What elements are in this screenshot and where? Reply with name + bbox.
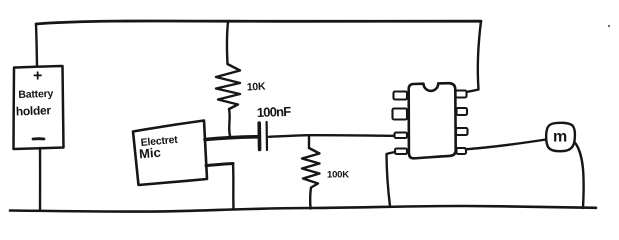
svg-text:m: m (553, 129, 567, 146)
resistor R1 10K (216, 64, 240, 136)
wire mic output to capacitor (205, 137, 257, 140)
wire V+ rail to IC pin 8 (467, 21, 481, 92)
microphone MIC1 electret (133, 121, 207, 186)
wire mic ground lead (206, 164, 234, 210)
label 100K value (327, 170, 349, 181)
op-amp IC U1 body (409, 83, 456, 158)
label 10K value (247, 81, 267, 94)
wire capacitor to IC pin 3 (269, 135, 394, 137)
wire 100K top lead (308, 135, 310, 148)
label 100nF value (257, 104, 292, 120)
IC U1 pin 1 (394, 92, 408, 100)
battery B1 holder (14, 66, 64, 149)
IC U1 pin 2 (393, 109, 408, 120)
ink speck (608, 25, 610, 27)
wire IC pin 5 to motor (466, 140, 546, 150)
wire 10K resistor top lead (227, 22, 228, 64)
wire battery positive lead (36, 24, 37, 66)
svg-text:+: + (33, 68, 42, 85)
svg-text:Battery: Battery (18, 88, 54, 101)
capacitor C1 right plate (266, 122, 269, 150)
wire ground bottom rail (10, 206, 596, 212)
IC U1 pin 8 (456, 91, 467, 98)
motor M1 (546, 123, 575, 151)
IC U1 pin 5 (457, 148, 467, 154)
IC U1 pin 3 (395, 133, 408, 139)
resistor R2 100K (302, 148, 320, 209)
svg-text:100nF: 100nF (257, 104, 292, 120)
wire motor to ground (575, 142, 584, 208)
IC U1 pin 4 (395, 149, 407, 155)
svg-text:100K: 100K (327, 170, 349, 181)
wire battery negative lead (39, 148, 42, 211)
wire V+ top rail (36, 21, 481, 24)
IC U1 pin 6 (456, 128, 468, 135)
svg-text:holder: holder (16, 103, 52, 118)
IC U1 pin 7 (457, 108, 468, 115)
svg-text:10K: 10K (247, 81, 267, 94)
capacitor C1 left plate (257, 123, 261, 150)
svg-text:Mic: Mic (138, 145, 161, 162)
wire IC pin 4 to ground (387, 152, 396, 206)
